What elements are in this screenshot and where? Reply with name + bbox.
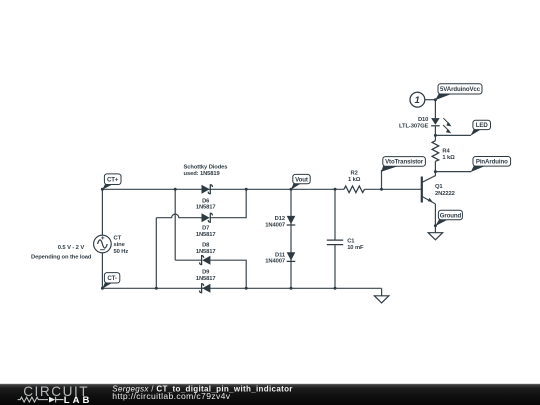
svg-text:Schottky Diodes: Schottky Diodes xyxy=(184,165,228,171)
wire ground stub bottom right xyxy=(381,288,383,296)
flag 5VArduinoVcc xyxy=(435,84,482,100)
svg-text:PinArduino: PinArduino xyxy=(476,159,508,166)
svg-text:1N5817: 1N5817 xyxy=(196,232,216,238)
svg-text:0.5 V - 2 V: 0.5 V - 2 V xyxy=(58,245,85,251)
logo diode xyxy=(49,397,64,403)
svg-text:D7: D7 xyxy=(202,226,209,232)
svg-text:1: 1 xyxy=(415,95,420,106)
junction Q1 emitter / Ground flag xyxy=(434,224,437,227)
wire bottom rail y=288 xyxy=(102,287,381,289)
diode D9 xyxy=(200,284,211,293)
junction Vout node xyxy=(290,188,293,191)
svg-text:2N2222: 2N2222 xyxy=(435,191,455,197)
svg-text:LED: LED xyxy=(476,122,489,129)
voltage source V1 (CT sine) xyxy=(94,235,112,253)
wire Q1 emitter to ground xyxy=(434,204,436,233)
junction D11 bottom xyxy=(290,287,293,290)
junction 5V rail top xyxy=(434,98,437,101)
flag Ground xyxy=(435,210,462,226)
wire D7 left with hop over x=175 xyxy=(156,214,202,218)
label CT sine 50 Hz xyxy=(114,236,129,255)
svg-text:10 mF: 10 mF xyxy=(347,245,364,251)
svg-text:http://circuitlab.com/c79zv4v: http://circuitlab.com/c79zv4v xyxy=(112,391,230,401)
junction D6/D7 cathodes xyxy=(245,188,248,191)
svg-text:D9: D9 xyxy=(202,270,210,276)
flag LED xyxy=(471,120,491,136)
svg-text:C1: C1 xyxy=(347,238,355,244)
wire D8 right to bottom rail xyxy=(210,260,246,288)
footer bar xyxy=(0,384,540,405)
wire top rail y=189 xyxy=(102,188,344,190)
flag CT+ xyxy=(102,174,121,190)
svg-text:used: 1N5819: used: 1N5819 xyxy=(184,171,221,177)
svg-text:D11: D11 xyxy=(275,252,286,258)
wire vertical x=156 (D7 to CT- rail) xyxy=(155,218,157,289)
svg-text:1N4007: 1N4007 xyxy=(265,258,285,264)
svg-text:D10: D10 xyxy=(418,117,428,123)
svg-text:CT+: CT+ xyxy=(107,177,119,184)
flag CT- xyxy=(102,273,120,289)
diode D6 xyxy=(202,185,213,194)
wire LED flag lead xyxy=(435,134,471,136)
resistor R4 xyxy=(432,141,439,162)
wire C1 branch top xyxy=(334,189,336,240)
svg-text:LTL-307GE: LTL-307GE xyxy=(399,123,429,129)
svg-text:D6: D6 xyxy=(202,198,210,204)
svg-text:Q1: Q1 xyxy=(435,184,443,190)
wire vertical x=175 (CT+ to D8) xyxy=(174,189,176,260)
transistor Q1 collector xyxy=(422,172,435,183)
LED D10 xyxy=(431,118,452,133)
svg-text:5VArduinoVcc: 5VArduinoVcc xyxy=(440,86,481,93)
wire left rail top (CT+ to source) xyxy=(101,189,103,235)
ground (Q1 emitter) xyxy=(428,233,442,240)
transistor Q1 base bar xyxy=(421,177,423,203)
svg-text:CT: CT xyxy=(114,236,122,242)
junction R2 output / VtoTransistor xyxy=(380,188,383,191)
diode D12 xyxy=(287,216,296,225)
capacitor C1 xyxy=(327,240,343,245)
svg-text:Depending on the load: Depending on the load xyxy=(31,254,92,260)
junction CT+ corner xyxy=(101,188,104,191)
wire 5V rail to D10 xyxy=(434,100,436,118)
svg-text:Ground: Ground xyxy=(440,212,462,219)
ground (bottom rail) xyxy=(374,296,388,303)
transistor Q1 emitter with arrow xyxy=(422,197,435,204)
svg-text:D8: D8 xyxy=(202,242,210,248)
wire probe to rail xyxy=(425,99,436,101)
svg-text:1N5817: 1N5817 xyxy=(196,276,216,282)
junction Q1 collector node xyxy=(434,170,437,173)
flag Vout xyxy=(291,174,310,189)
junction CT- corner xyxy=(101,287,104,290)
svg-text:R2: R2 xyxy=(350,170,357,176)
wire D8 left xyxy=(175,259,202,261)
svg-text:D12: D12 xyxy=(275,216,285,222)
svg-text:1N5817: 1N5817 xyxy=(196,205,216,211)
junction C1 top tap xyxy=(334,188,337,191)
svg-text:VtoTransistor: VtoTransistor xyxy=(385,159,424,166)
wire D10 to LED node xyxy=(434,126,436,136)
svg-text:sine: sine xyxy=(114,242,126,248)
diode D8 xyxy=(200,256,211,265)
logo resistor squiggle xyxy=(18,397,48,402)
wire C1 branch bottom xyxy=(334,245,336,289)
wire left rail bottom (source to CT-) xyxy=(101,253,103,288)
flag VtoTransistor xyxy=(381,157,425,172)
resistor R2 xyxy=(344,186,365,193)
wire D7 right to top rail xyxy=(210,189,246,217)
wire PinArduino lead xyxy=(435,171,471,173)
svg-text:LAB: LAB xyxy=(64,395,93,405)
svg-text:1N4007: 1N4007 xyxy=(265,222,285,228)
wire R4 bottom lead xyxy=(434,161,436,171)
junction LED node xyxy=(434,134,437,137)
wire VtoTransistor tail line xyxy=(381,170,383,189)
junction D8/D9 anodes xyxy=(245,287,248,290)
svg-text:50 Hz: 50 Hz xyxy=(114,249,129,255)
wire top rail after R2 to Q1 base xyxy=(365,188,422,190)
junction D7 anode tap xyxy=(155,287,158,290)
probe 1 xyxy=(410,92,425,107)
wire R4 top lead xyxy=(434,135,436,140)
junction C1 bottom xyxy=(334,287,337,290)
wire D12 D11 branch x=291 xyxy=(290,189,292,288)
svg-text:1 kΩ: 1 kΩ xyxy=(442,155,455,161)
svg-text:1N5817: 1N5817 xyxy=(196,249,216,255)
diode D7 xyxy=(202,213,213,222)
flag PinArduino xyxy=(471,157,511,173)
diode D11 xyxy=(287,252,296,261)
junction node A top tap xyxy=(174,188,177,191)
svg-text:Vout: Vout xyxy=(295,176,308,183)
svg-text:CT-: CT- xyxy=(107,275,117,282)
svg-text:R4: R4 xyxy=(442,149,450,155)
svg-text:1 kΩ: 1 kΩ xyxy=(348,177,361,183)
